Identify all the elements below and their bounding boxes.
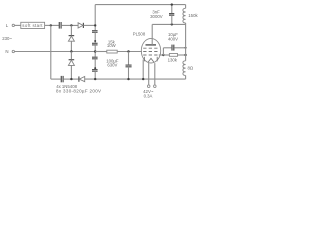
capacitor C5 stack xyxy=(92,57,98,69)
inductor L2 secondary xyxy=(183,61,186,76)
node N terminal xyxy=(5,49,14,54)
svg-text:230~: 230~ xyxy=(2,36,12,41)
tube anode xyxy=(146,24,157,45)
wire bottom rail left xyxy=(51,78,61,80)
tube grid g1 xyxy=(143,54,159,56)
node stack bottom junction xyxy=(94,78,96,80)
resistor R1 15k 10W xyxy=(95,39,142,53)
wire cathode lead xyxy=(142,60,144,80)
label 42V 0.3A xyxy=(143,89,154,99)
node cap7 bottom junction xyxy=(127,78,129,80)
node cathode junction xyxy=(142,78,144,80)
diode D4 xyxy=(79,76,186,81)
node RC right bottom junction xyxy=(184,54,186,56)
node stack junction 1 xyxy=(94,40,96,42)
soft start box xyxy=(21,22,45,28)
node M1 junction xyxy=(70,24,72,26)
heater terminal 1 xyxy=(147,63,150,88)
capacitor C1 series L xyxy=(59,22,78,29)
node L terminal xyxy=(6,23,15,28)
wire stack riser xyxy=(94,5,96,31)
node RC right top junction xyxy=(185,47,187,49)
svg-text:N: N xyxy=(5,49,8,54)
node A junction xyxy=(50,24,52,26)
node mid stack junction xyxy=(94,50,96,52)
capacitor C6 stack xyxy=(92,70,98,80)
svg-text:soft start: soft start xyxy=(22,23,43,28)
resistor R2 130k xyxy=(163,54,185,63)
node M2 junction xyxy=(70,78,72,80)
tube heater xyxy=(148,58,154,62)
svg-text:PL508: PL508 xyxy=(133,32,146,37)
svg-text:0.3A: 0.3A xyxy=(144,94,153,99)
tube grid g2 xyxy=(143,51,159,53)
wire transformer riser top xyxy=(185,5,187,9)
wire soft start to C1 xyxy=(45,24,59,26)
wire left branch vertical xyxy=(50,25,52,79)
node screen junction xyxy=(127,50,129,52)
svg-text:8x 330-820µF 200V: 8x 330-820µF 200V xyxy=(56,89,101,94)
wire transformer mid xyxy=(185,23,187,61)
diode D2 xyxy=(68,25,74,51)
svg-text:150k: 150k xyxy=(188,13,198,18)
capacitor C4 stack xyxy=(92,43,98,56)
svg-text:8Ω: 8Ω xyxy=(188,66,194,71)
node top rail junction xyxy=(171,3,173,5)
svg-text:L: L xyxy=(6,23,9,28)
tube grid g3 xyxy=(143,47,159,49)
tube cathode xyxy=(144,57,157,62)
wire grid lead xyxy=(159,54,164,56)
tube V1 PL508 envelope xyxy=(133,32,161,63)
node anode junction xyxy=(171,23,173,25)
capacitor C8 3nF 3000V xyxy=(150,5,174,25)
wire top rail xyxy=(95,4,185,6)
capacitor C2 series bottom xyxy=(61,76,79,82)
node stack junction 2 xyxy=(94,67,96,69)
svg-text:10W: 10W xyxy=(107,43,117,48)
diode D1 xyxy=(78,23,95,28)
wire N rail xyxy=(15,51,96,53)
node grid junction xyxy=(162,54,164,56)
wire anode to primary xyxy=(152,23,185,25)
svg-text:3000V: 3000V xyxy=(150,14,163,19)
wire RC left leg xyxy=(162,48,164,55)
svg-text:130k: 130k xyxy=(168,58,178,63)
svg-text:400V: 400V xyxy=(168,37,178,42)
capacitor C7 100uF 630V xyxy=(106,52,131,80)
node N-mid junction xyxy=(70,50,72,52)
wire transformer bottom xyxy=(185,76,187,80)
inductor L1 primary xyxy=(183,8,186,23)
wire L to soft start xyxy=(15,24,21,26)
capacitor C9 10uF 400V xyxy=(163,32,185,51)
heater terminal 2 xyxy=(154,63,157,87)
capacitor C3 stack xyxy=(92,31,98,44)
diode D3 xyxy=(68,52,74,80)
node B+ junction xyxy=(94,24,96,26)
svg-text:630V: 630V xyxy=(107,62,117,67)
